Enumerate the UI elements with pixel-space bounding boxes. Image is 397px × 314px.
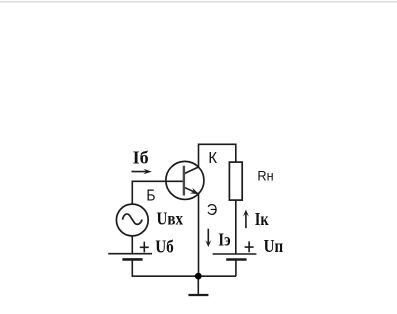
svg-text:Uвх: Uвх xyxy=(157,209,184,229)
svg-text:Iк: Iк xyxy=(255,209,270,229)
svg-text:Iб: Iб xyxy=(133,147,149,167)
svg-text:Iэ: Iэ xyxy=(218,229,230,249)
svg-text:Uп: Uп xyxy=(264,236,284,256)
svg-text:Rн: Rн xyxy=(257,169,273,184)
svg-text:Б: Б xyxy=(146,188,155,205)
svg-text:Uб: Uб xyxy=(155,236,174,256)
svg-text:Э: Э xyxy=(207,202,218,219)
svg-text:К: К xyxy=(208,150,217,167)
